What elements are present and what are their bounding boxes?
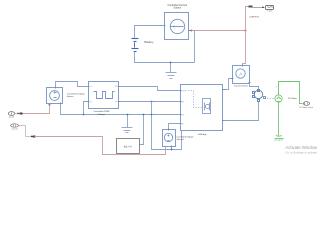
node -ref rail junction: [83, 114, 85, 116]
motor block green DC Motor: [275, 95, 282, 137]
svg-text:current: current: [249, 14, 259, 18]
svg-text:Controlled Voltage: Controlled Voltage: [67, 92, 86, 95]
current sensor U5: [233, 66, 250, 84]
wire battery bottom rail: [135, 52, 195, 63]
svg-text:A: A: [239, 71, 242, 76]
wire CVS plus to PWM +ref: [56, 82, 89, 88]
node REF tie: [151, 101, 153, 103]
converter S-PS 1: [20, 113, 23, 115]
wire CVS minus to rail: [61, 104, 181, 115]
wire PS In1 to CVS: [23, 105, 50, 114]
port ticks: [56, 26, 251, 148]
svg-text:DC Motor: DC Motor: [288, 97, 297, 100]
voltage source U2 Controlled Voltage Source: [47, 88, 63, 104]
svg-text:REV: REV: [181, 123, 184, 125]
wire solver tap: [140, 115, 144, 145]
wire In2 to converter: [19, 126, 32, 137]
current source U1 Controlled Current Source: [165, 13, 189, 40]
svg-text:Controlled Voltage: Controlled Voltage: [177, 135, 195, 138]
svg-text:Source: Source: [67, 95, 75, 98]
wire H- to motor minus: [224, 102, 259, 121]
svg-text:Source: Source: [174, 7, 182, 10]
voltage source U6 Controlled Voltage Source1: [163, 130, 176, 147]
wire CCS right loop: [190, 31, 195, 63]
pwm source U3 Controlled PWM Voltage: [89, 82, 119, 109]
mechanical reference green: [275, 135, 284, 138]
svg-text:Activate Windows: Activate Windows: [285, 145, 317, 150]
node solver rail junction: [143, 114, 145, 116]
ground G1: [166, 63, 177, 79]
wire PS In2 to CVS1: [35, 137, 166, 155]
h-bridge U4: [181, 85, 223, 131]
wire PS down to current sensor I: [243, 31, 246, 66]
svg-text:Current Sensor: Current Sensor: [234, 85, 248, 88]
svg-text:REF: REF: [115, 101, 118, 103]
outport DC Motor output: [304, 102, 310, 106]
wire H+ to sensor: [224, 79, 233, 90]
svg-text:Go to Settings to activate Win: Go to Settings to activate Windows.: [285, 151, 317, 155]
h-bridge icon: [203, 99, 211, 114]
svg-text:scope: scope: [267, 10, 272, 12]
inport In1: [8, 112, 14, 116]
node PS tap on CCS output: [191, 30, 193, 32]
wire PWM out to H-bridge PWM: [119, 87, 181, 91]
node CVS1 minus junction: [171, 149, 173, 151]
wire REF tie to rail and CVS1 minus: [152, 102, 182, 150]
converter PS-Simulink: [249, 6, 253, 8]
converter S-PS 2: [33, 136, 36, 138]
wire battery top to CCS: [135, 26, 165, 39]
wire CVS1 minus stub: [171, 147, 173, 150]
wire REF out to H-bridge REF: [119, 101, 181, 103]
wire In1 to converter: [15, 113, 19, 115]
node battery/ground junction: [170, 62, 172, 64]
wire -ref down to rail: [84, 102, 89, 115]
svg-text:DC Motor output: DC Motor output: [299, 106, 313, 109]
wire CVS1 plus to REV: [169, 124, 181, 130]
inport In2: [11, 124, 19, 127]
wire PS up to scope: [246, 7, 249, 31]
wire signal to scope: [253, 7, 265, 9]
scope current scope: [266, 6, 274, 10]
svg-text:speed: speed: [9, 117, 14, 119]
wire dashed pwm control: [186, 91, 203, 108]
node PS tee: [245, 30, 247, 32]
svg-text:BRK: BRK: [181, 115, 184, 117]
node rail cross: [151, 114, 153, 116]
battery B: [132, 39, 139, 52]
svg-text:Voltage: Voltage: [98, 113, 106, 116]
svg-text:Controlled PWM: Controlled PWM: [93, 110, 109, 113]
wire dashed shaft: [265, 98, 275, 100]
svg-text:H-Bridge: H-Bridge: [198, 133, 207, 136]
svg-text:Source1: Source1: [177, 138, 186, 141]
svg-text:Battery: Battery: [145, 40, 154, 44]
svg-text:REF: REF: [181, 102, 184, 104]
ground G2: [127, 115, 129, 128]
wire green to outport: [279, 82, 303, 104]
solver configuration f(x)=0: [117, 139, 140, 154]
motor M DC Motor: [253, 90, 263, 102]
wire sensor out to motor plus: [250, 83, 259, 91]
svg-text:reverse: reverse: [12, 128, 18, 131]
svg-text:f(x) = 0: f(x) = 0: [124, 145, 132, 148]
wire PS feedback to current source: [192, 30, 246, 32]
node ground rail junction: [127, 114, 129, 116]
